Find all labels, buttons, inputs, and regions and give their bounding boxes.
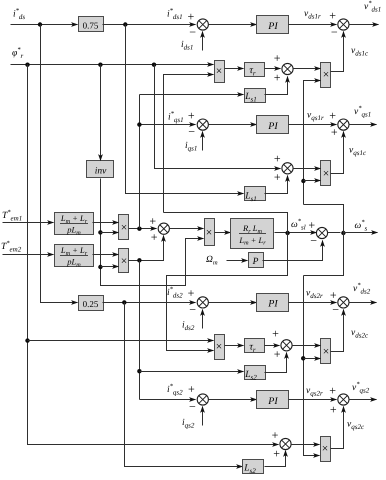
wire i*ds to 0.75 box	[11, 24, 78, 26]
gain block (Lm+Lr)/(pLm) 1	[55, 213, 94, 237]
wire 0.25 to i_ds2 summer	[103, 302, 196, 304]
junction v_qs1	[338, 119, 349, 130]
wire L_s2a up into comp3 summer	[265, 353, 287, 373]
svg-text:inv: inv	[95, 167, 107, 177]
svg-text:×: ×	[206, 227, 213, 239]
svg-text:+: +	[188, 382, 195, 396]
wire gain1 to XA	[93, 222, 119, 224]
svg-text:ids2: ids2	[182, 321, 195, 333]
svg-text:+: +	[331, 125, 338, 139]
wire tau_r1 to comp1 summer	[265, 68, 281, 70]
wire i_ds1 feedback stub	[202, 32, 204, 51]
svg-text:+: +	[330, 403, 337, 417]
svg-text:+: +	[329, 384, 336, 398]
wire tau_r2 to comp3 summer	[265, 345, 280, 347]
block L_s1 b	[244, 187, 265, 204]
node i_qs1* to loop	[137, 122, 141, 126]
wire X1 to tau_r1	[225, 68, 244, 70]
svg-text:−: −	[332, 303, 339, 317]
wire w_sl down to row6	[167, 233, 288, 351]
wire v_ds1 output	[349, 24, 379, 26]
multiplier XR4 (w_s x comp qs2)	[321, 437, 331, 462]
wire inv output bus down	[101, 179, 204, 286]
svg-text:+: +	[329, 9, 336, 23]
wire phi_r to comp2 summer	[155, 65, 281, 169]
wire w_sl riser to X1	[164, 75, 214, 213]
node inv out to XA	[98, 230, 102, 234]
slip gain block RrLm/(Lm+Lr)	[231, 219, 274, 249]
svg-text:i*qs2: i*qs2	[167, 383, 183, 397]
wire phi_r node to X2	[28, 340, 214, 342]
block P (pole pairs)	[249, 253, 264, 268]
svg-text:+: +	[151, 230, 158, 244]
svg-text:T*em2: T*em2	[1, 240, 22, 254]
wire summer to PI 3	[209, 302, 257, 304]
wire XA out i_qs1* to sum	[129, 228, 157, 230]
svg-text:v*ds1: v*ds1	[364, 0, 381, 14]
wire i_qs1 feedback stub	[202, 132, 204, 151]
svg-text:0.75: 0.75	[83, 21, 99, 31]
block tau_r 2	[245, 339, 265, 355]
gain 0.25	[79, 296, 104, 311]
svg-text:+: +	[274, 71, 281, 85]
svg-text:−: −	[188, 125, 195, 139]
junction v_qs2	[338, 394, 349, 405]
svg-text:+: +	[149, 214, 156, 228]
svg-text:ω*s: ω*s	[355, 219, 368, 233]
wire i_qs2* to L_s2a	[140, 371, 244, 373]
wire i_qs2* into summer	[140, 399, 196, 401]
wire X2 to tau_r2	[225, 345, 244, 347]
node i_qs2* to L_s2a	[137, 369, 141, 373]
junction v_ds1	[338, 19, 349, 30]
wire i_qs1* into summer	[140, 124, 196, 126]
summer comp ds2	[281, 340, 292, 351]
gain 0.75	[79, 17, 104, 32]
node w_s bus to XR2	[301, 179, 305, 183]
svg-text:vqs1r: vqs1r	[307, 111, 324, 123]
wire L_s1a up into comp1 summer	[265, 77, 288, 95]
svg-text:ω*sl: ω*sl	[291, 218, 306, 232]
block L_s2 b	[243, 460, 264, 476]
svg-text:vds1r: vds1r	[304, 9, 321, 21]
svg-text:+: +	[273, 447, 280, 461]
PI controller 3	[257, 294, 289, 312]
node i_ds1* branch	[123, 22, 127, 26]
multiplier XA (T1 x inv)	[119, 215, 129, 240]
svg-text:×: ×	[323, 168, 330, 180]
svg-text:i*qs1: i*qs1	[168, 111, 184, 125]
PI controller 1	[257, 16, 289, 34]
node w_s to XR3	[301, 356, 305, 360]
svg-text:iqs2: iqs2	[182, 418, 195, 430]
svg-text:−: −	[189, 400, 196, 414]
svg-text:φ*r: φ*r	[12, 47, 24, 61]
wire slip gain to w junction	[275, 232, 317, 234]
svg-text:0.25: 0.25	[83, 299, 99, 309]
wire v_qs2 output	[349, 399, 377, 401]
wire XR4 out v_qs2c riser	[331, 407, 344, 449]
wire v_qs1 output	[349, 124, 377, 126]
svg-text:i*ds2: i*ds2	[167, 286, 183, 300]
svg-text:PI: PI	[267, 21, 278, 32]
summer i_qs1	[197, 119, 208, 130]
svg-text:v*ds2: v*ds2	[353, 282, 371, 296]
svg-text:T*em1: T*em1	[2, 209, 22, 223]
wire w_s down to bottom bus	[304, 233, 344, 276]
svg-text:×: ×	[121, 222, 128, 234]
wire L_s2b up into comp4 summer	[265, 451, 286, 467]
node w_sl*	[285, 231, 289, 235]
multiplier X1 (phi_r x w_sl)	[215, 61, 225, 83]
wire i_qs1* riser	[139, 95, 141, 229]
wire XR1 out v_ds1c riser	[331, 32, 344, 72]
svg-text:×: ×	[323, 346, 330, 358]
wire w_s bottom bus	[304, 276, 320, 456]
wire phi_r down left bus	[28, 65, 279, 445]
node i_qs1* riser	[137, 227, 141, 231]
wire summer to PI 2	[209, 124, 257, 126]
svg-text:i*ds1: i*ds1	[167, 7, 183, 21]
svg-text:+: +	[274, 151, 281, 165]
wire summer to PI 4	[209, 399, 257, 401]
summer i_ds2	[197, 297, 208, 308]
wire iq sum to XC	[170, 228, 204, 230]
svg-text:+: +	[329, 109, 336, 123]
svg-text:P: P	[252, 257, 259, 267]
wire i_qs1* to L_s1a	[140, 94, 244, 96]
wire comp4 summer to XR4	[291, 444, 320, 446]
svg-text:i*ds: i*ds	[13, 8, 25, 22]
PI controller 2	[257, 116, 289, 134]
svg-text:×: ×	[216, 66, 223, 78]
multiplier XR3 (w_s x comp ds2)	[321, 339, 331, 364]
wire i_ds2 feedback stub	[202, 310, 204, 329]
wire v_ds2 output	[349, 302, 377, 304]
wire XB out to sum riser	[129, 236, 164, 261]
node i*ds branch	[38, 22, 42, 26]
svg-text:+: +	[274, 170, 281, 184]
svg-text:+: +	[274, 51, 281, 65]
wire comp2 summer to XR2	[293, 168, 321, 170]
svg-text:−: −	[331, 25, 338, 39]
wire phi_r* bus horizontal	[11, 64, 214, 66]
multiplier XB (T2 x inv)	[119, 249, 129, 273]
wire w_s bus to XR1	[304, 81, 321, 205]
node phi_r B	[98, 62, 102, 66]
svg-text:vds2r: vds2r	[306, 289, 323, 301]
wire summer to PI 1	[209, 24, 257, 26]
wire w junction to w_s node	[328, 232, 341, 234]
svg-text:−: −	[189, 25, 196, 39]
summer i_qs1+i_qs2	[158, 223, 169, 234]
block inv (1/phi_r)	[87, 161, 114, 178]
node i_qs2* riser	[137, 258, 141, 262]
svg-text:×: ×	[323, 69, 330, 81]
multiplier XC (iq sum x inv)	[205, 219, 215, 246]
svg-text:+: +	[188, 9, 195, 23]
node phi_r to X2	[25, 338, 29, 342]
wire w_s output	[344, 232, 378, 234]
svg-text:−: −	[310, 234, 317, 248]
wire PI4 to v_qs2 junction	[289, 399, 337, 401]
gain block (Lm+Lr)/(pLm) 2	[55, 245, 94, 269]
summer comp qs2	[280, 438, 291, 449]
wire XC to slip gain block	[215, 232, 231, 234]
node i_ds2* branch	[122, 300, 126, 304]
svg-text:+: +	[188, 286, 195, 300]
wire P out up into w junction	[263, 241, 323, 261]
wire inv node to XB	[101, 266, 119, 268]
junction v_ds2	[338, 297, 349, 308]
wire w_sl riser up-left	[164, 213, 288, 233]
svg-text:PI: PI	[267, 299, 278, 310]
summer i_qs2	[197, 394, 208, 405]
svg-text:v*qs1: v*qs1	[354, 105, 371, 119]
wire PI1 to v_ds1 junction	[289, 24, 337, 26]
wire T_em2 into gain2	[3, 254, 54, 256]
wire comp1 summer to XR1	[293, 68, 321, 70]
svg-text:vqs1c: vqs1c	[349, 146, 367, 158]
wire XR2 out v_qs1c riser	[331, 132, 344, 174]
svg-text:PI: PI	[267, 121, 278, 132]
wire i_qs2* riser down	[139, 261, 141, 400]
multiplier XR1 (w_s x comp ds1)	[321, 63, 331, 88]
wire Omega_m to P block	[227, 260, 248, 262]
node inv out to XB	[98, 265, 102, 269]
wire L_s1b up into comp2 summer	[265, 176, 288, 194]
wire 0.75 to i_ds1 summer	[103, 24, 196, 26]
svg-text:+: +	[308, 218, 315, 232]
multiplier XR2 (w_s x comp qs1)	[321, 161, 331, 186]
node phi_r C	[152, 62, 156, 66]
wire T_em1 into gain1	[3, 222, 54, 224]
wire w_s node to XR2	[304, 180, 321, 182]
wire comp3 summer to XR3	[292, 345, 321, 347]
wire i_ds1* down to L_s1b	[126, 25, 244, 194]
summer comp ds1	[282, 63, 293, 74]
block L_s1 a	[244, 89, 265, 104]
svg-text:+: +	[274, 347, 281, 361]
svg-text:ids1: ids1	[181, 40, 193, 52]
wire PI2 to v_qs1 junction	[289, 124, 337, 126]
svg-text:vds1c: vds1c	[351, 46, 369, 58]
node w_s*	[341, 231, 345, 235]
wire PI3 to v_ds2 junction	[289, 302, 337, 304]
summer i_ds1	[197, 19, 208, 30]
svg-text:Ωm: Ωm	[206, 255, 218, 266]
junction w_s	[316, 227, 327, 238]
svg-text:−: −	[189, 302, 196, 316]
wire XR3 out v_ds2c riser	[331, 310, 344, 352]
wire phi_r down into inv	[100, 65, 102, 161]
svg-text:×: ×	[216, 341, 223, 353]
svg-text:+: +	[272, 326, 279, 340]
svg-text:+: +	[330, 288, 337, 302]
PI controller 4	[257, 391, 289, 409]
wire i_ds2* down to L_s2b	[125, 303, 243, 467]
multiplier X2 (phi_r x w_sl)	[215, 335, 225, 360]
svg-text:×: ×	[121, 256, 128, 268]
node phi_r A	[25, 62, 29, 66]
block L_s2 a	[244, 366, 265, 382]
wire i_qs2 feedback stub	[202, 407, 204, 426]
wire gain2 to XB	[93, 254, 119, 256]
svg-text:PI: PI	[267, 396, 278, 407]
svg-text:vqs2r: vqs2r	[306, 386, 323, 398]
svg-text:+: +	[272, 428, 279, 442]
wire inv node to XA	[101, 232, 119, 234]
wire w_s up to top bus	[304, 205, 344, 233]
wire w_s node to XR3	[304, 358, 321, 360]
svg-text:vqs2c: vqs2c	[347, 420, 365, 432]
svg-text:vds2c: vds2c	[351, 328, 369, 340]
svg-text:iqs1: iqs1	[185, 141, 197, 153]
summer comp qs1	[282, 163, 293, 174]
svg-text:v*qs2: v*qs2	[352, 381, 370, 395]
block tau_r 1	[245, 63, 265, 78]
wire i_ds* down to 0.25	[41, 25, 78, 303]
svg-text:+: +	[188, 109, 195, 123]
svg-text:×: ×	[322, 443, 329, 455]
